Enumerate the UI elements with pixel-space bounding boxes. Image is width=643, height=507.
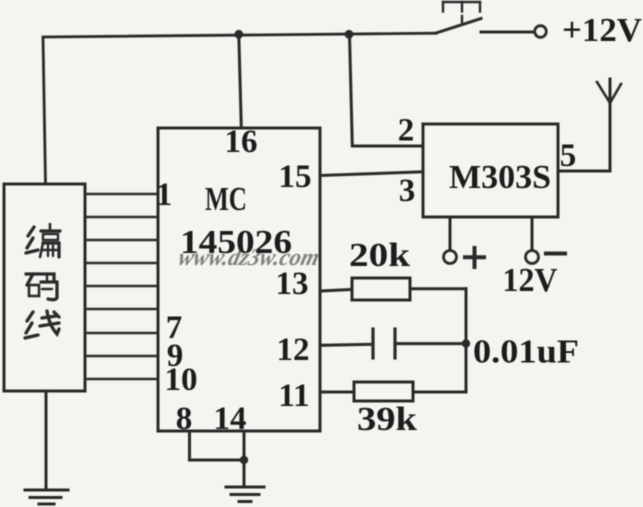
svg-text:3: 3 xyxy=(399,173,416,209)
svg-text:0.01uF: 0.01uF xyxy=(473,334,579,371)
svg-text:14: 14 xyxy=(214,401,247,437)
svg-text:20k: 20k xyxy=(349,237,410,274)
svg-text:11: 11 xyxy=(278,378,309,414)
svg-text:16: 16 xyxy=(225,124,258,160)
svg-text:MC: MC xyxy=(205,181,247,218)
svg-text:10: 10 xyxy=(165,362,198,398)
svg-text:15: 15 xyxy=(279,159,312,195)
svg-text:+12V: +12V xyxy=(562,12,642,49)
svg-text:5: 5 xyxy=(560,138,577,174)
svg-text:M303S: M303S xyxy=(449,159,551,196)
svg-text:1: 1 xyxy=(156,177,173,213)
svg-text:8: 8 xyxy=(176,401,193,437)
svg-text:www.dz3w.com: www.dz3w.com xyxy=(176,244,323,271)
svg-text:2: 2 xyxy=(398,113,415,149)
svg-text:12: 12 xyxy=(277,332,310,368)
svg-text:39k: 39k xyxy=(357,401,417,438)
svg-text:12V: 12V xyxy=(503,262,558,299)
svg-text:13: 13 xyxy=(276,266,309,302)
